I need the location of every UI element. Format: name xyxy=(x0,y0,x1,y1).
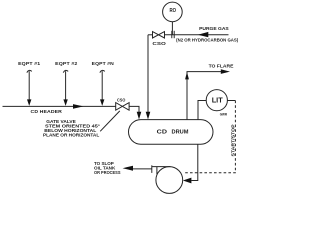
instrument bubble RO xyxy=(163,2,183,22)
purge flow arrow xyxy=(198,32,209,37)
note leader line xyxy=(100,111,120,131)
pump discharge flange tick xyxy=(151,165,153,173)
svg-text:CD HEADER: CD HEADER xyxy=(31,109,63,114)
equipment inlet EQPT #2 label xyxy=(55,61,78,66)
flare arrowhead xyxy=(221,69,230,74)
CD DRUM label xyxy=(157,129,189,135)
instrument RO stem xyxy=(171,22,173,35)
svg-text:PLANE OR HORIZONTAL: PLANE OR HORIZONTAL xyxy=(43,133,100,138)
valve CSO on purge line xyxy=(153,32,165,38)
purge gas pipe xyxy=(148,34,229,36)
svg-text:RO: RO xyxy=(170,8,177,14)
equipment inlet EQPT #1 break tick xyxy=(27,70,32,72)
wire: header to drum inlet xyxy=(129,106,139,112)
GWR label xyxy=(220,113,228,117)
svg-text:PURGE GAS: PURGE GAS xyxy=(199,26,229,31)
signal line (dashed) start/stop xyxy=(185,101,236,173)
wire: EQPT #N drop line xyxy=(101,71,103,100)
svg-text:EQPT #N: EQPT #N xyxy=(92,61,114,66)
equipment inlet EQPT #2 break tick xyxy=(63,70,68,72)
svg-text:OR PROCESS: OR PROCESS xyxy=(94,170,121,175)
START/STOP label xyxy=(230,124,235,156)
CD HEADER label xyxy=(31,109,63,114)
svg-text:CD: CD xyxy=(157,129,168,135)
svg-text:TO FLARE: TO FLARE xyxy=(209,63,234,68)
equipment inlet EQPT #N label xyxy=(92,61,114,66)
svg-text:GWR: GWR xyxy=(220,113,228,117)
arrow into CD header from EQPT #N xyxy=(100,99,104,106)
gate valve CSO on CD header xyxy=(116,103,129,111)
equipment inlet EQPT #N break tick xyxy=(100,70,105,72)
svg-text:START/STOP: START/STOP xyxy=(230,124,235,156)
pump tangent top line xyxy=(152,166,171,168)
svg-text:CSO: CSO xyxy=(152,41,166,46)
equipment inlet EQPT #1 label xyxy=(18,61,41,66)
wire: LIT riser xyxy=(198,101,206,120)
arrow into CD header from EQPT #2 xyxy=(63,99,67,106)
wire: LIT to signal corner xyxy=(227,100,235,102)
discharge arrowhead xyxy=(123,166,133,171)
TO FLARE label xyxy=(209,63,234,68)
restriction orifice flanges xyxy=(172,31,174,38)
wire: EQPT #1 drop line xyxy=(28,71,30,100)
note text: gate valve orientation xyxy=(43,119,100,138)
wire: drum outlet to pump xyxy=(191,144,197,180)
svg-text:DRUM: DRUM xyxy=(172,129,189,135)
PURGE GAS label xyxy=(199,26,229,31)
CSO label (purge valve) xyxy=(152,41,166,46)
up arrow on flare riser xyxy=(185,72,189,80)
svg-text:LIT: LIT xyxy=(212,95,223,104)
arrow into CD header from EQPT #1 xyxy=(27,99,31,106)
instrument bubble LIT xyxy=(206,90,227,111)
N2 or hydrocarbon gas label xyxy=(176,38,239,43)
svg-text:EQPT #1: EQPT #1 xyxy=(18,61,41,66)
svg-text:CSO: CSO xyxy=(117,98,126,103)
arrow into drum (header inlet) xyxy=(137,112,142,120)
CD drum vessel xyxy=(129,120,214,145)
CD header pipe xyxy=(3,105,116,107)
wire: flare line xyxy=(187,72,221,120)
wire: purge drop to drum inlet xyxy=(147,35,149,113)
arrow into drum (purge inlet) xyxy=(146,112,151,120)
pump casing xyxy=(156,167,183,194)
flow arrow on CD header xyxy=(73,104,84,109)
svg-text:(N2 OR HYDROCARBON GAS): (N2 OR HYDROCARBON GAS) xyxy=(176,38,239,43)
wire: EQPT #2 drop line xyxy=(65,71,67,100)
pump volute step xyxy=(156,167,158,175)
svg-text:EQPT #2: EQPT #2 xyxy=(55,61,78,66)
arrow into pump suction xyxy=(183,178,192,184)
CSO label (gate valve) xyxy=(117,98,126,103)
TO SLOP OIL TANK OR PROCESS label xyxy=(94,161,121,175)
pump discharge line xyxy=(133,168,152,170)
